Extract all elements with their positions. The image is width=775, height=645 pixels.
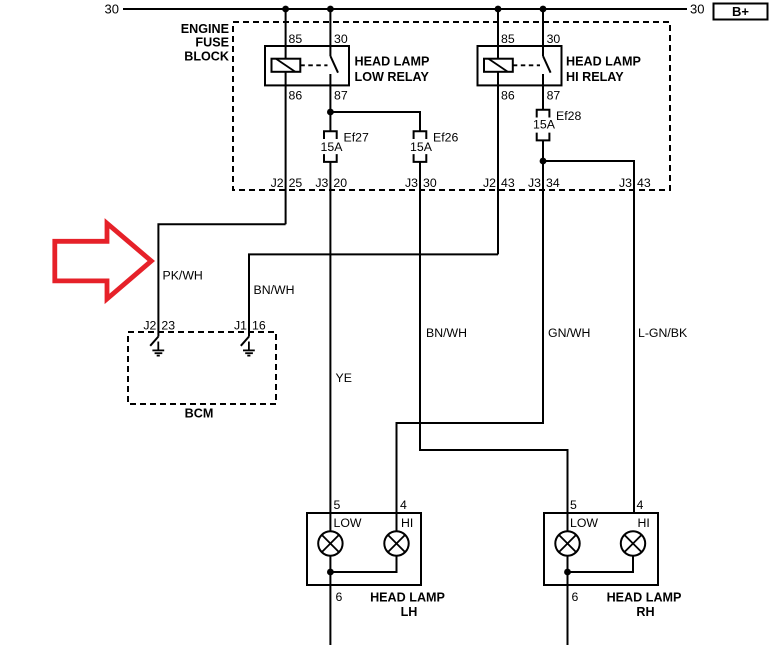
svg-text:HEAD LAMP: HEAD LAMP <box>566 55 641 69</box>
relay: HEAD LAMP LOW RELAY <box>265 32 429 103</box>
power source B+ <box>714 4 768 20</box>
connector J2 pin 25 <box>271 176 303 190</box>
connector J1 pin 16 <box>234 318 266 332</box>
svg-text:FUSE: FUSE <box>195 36 229 50</box>
svg-text:Ef28: Ef28 <box>556 109 581 123</box>
svg-text:L-GN/BK: L-GN/BK <box>638 326 688 340</box>
svg-text:BCM: BCM <box>185 407 214 421</box>
connector J3 pin 34 <box>528 176 560 190</box>
svg-text:30: 30 <box>334 32 348 46</box>
junction: bus / low relay pin 85 <box>282 6 289 13</box>
svg-text:4: 4 <box>400 498 407 512</box>
wire: YE from fuse Ef27 to head lamp LH pin 5 <box>329 162 331 531</box>
wire: bus to low relay coil (pin 85) <box>285 9 287 59</box>
junction: bus / hi relay pin 30 <box>540 6 547 13</box>
svg-text:15A: 15A <box>321 140 344 154</box>
fuse Ef27 15A <box>321 131 369 162</box>
connector J3 pin 30 <box>405 176 437 190</box>
svg-text:86: 86 <box>501 89 515 103</box>
svg-text:43: 43 <box>637 176 651 190</box>
svg-text:HEAD LAMP: HEAD LAMP <box>355 55 430 69</box>
lamp HI LH <box>384 516 413 556</box>
relay switch blade <box>330 56 338 73</box>
engine fuse block boundary <box>181 22 670 190</box>
svg-text:Ef27: Ef27 <box>344 131 369 145</box>
head lamp LH assembly <box>307 498 445 619</box>
wire: hi relay pin 87 to fuse Ef28 <box>542 74 544 110</box>
svg-text:86: 86 <box>289 89 303 103</box>
wire: fuse Ef28 to junction <box>542 140 544 161</box>
svg-text:J2: J2 <box>483 176 496 190</box>
fuse Ef26 15A <box>410 131 458 162</box>
ground: BCM J2 23 <box>150 337 164 356</box>
junction: Ef28 output branch <box>540 158 547 165</box>
junction: LH common <box>327 569 334 576</box>
junction: pin 87 / fuse branch <box>327 109 334 116</box>
BCM module boundary <box>128 332 276 421</box>
svg-text:BLOCK: BLOCK <box>184 49 229 63</box>
relay box <box>265 46 349 85</box>
svg-text:30: 30 <box>547 32 561 46</box>
wire: BN/WH from fuse Ef26 to head lamp RH pin 5 <box>420 162 568 531</box>
svg-text:HI: HI <box>638 516 650 530</box>
wire: head lamp RH pin 6 to ground (off page) <box>567 585 569 645</box>
svg-text:BN/WH: BN/WH <box>254 283 295 297</box>
svg-text:J2: J2 <box>271 176 284 190</box>
wire: bus to hi relay coil (pin 85) <box>497 9 499 59</box>
svg-text:85: 85 <box>501 32 515 46</box>
relay actuator dashed link <box>300 64 327 66</box>
relay actuator dashed link <box>513 64 540 66</box>
head lamp RH assembly <box>544 498 681 619</box>
svg-text:43: 43 <box>501 176 515 190</box>
wire: PK/WH from J2 25 to BCM J2 23 ground <box>158 224 285 336</box>
lamp LOW RH <box>555 516 598 556</box>
svg-text:LOW: LOW <box>570 516 598 530</box>
svg-text:J3: J3 <box>315 176 328 190</box>
svg-text:87: 87 <box>547 89 561 103</box>
svg-text:J3: J3 <box>619 176 632 190</box>
lamp LOW LH <box>318 516 362 556</box>
svg-text:25: 25 <box>289 176 303 190</box>
svg-text:16: 16 <box>252 318 266 332</box>
svg-text:ENGINE: ENGINE <box>181 22 229 36</box>
junction: bus / low relay pin 30 <box>327 6 334 13</box>
svg-text:LOW: LOW <box>334 516 362 530</box>
svg-text:BN/WH: BN/WH <box>426 326 467 340</box>
connector J2 pin 43 <box>483 176 515 190</box>
relay switch blade <box>543 56 551 73</box>
wire: hi relay pin 86 down (J2 43) <box>497 72 499 255</box>
svg-text:23: 23 <box>161 318 175 332</box>
wire: LH HI lamp to common <box>330 556 396 573</box>
wire: RH LOW lamp to pin 6 <box>567 556 569 586</box>
wire: head lamp LH pin 6 to ground (off page) <box>329 585 331 645</box>
wire: branch to fuse Ef26 <box>330 112 420 131</box>
svg-text:J2: J2 <box>143 318 156 332</box>
svg-text:RH: RH <box>636 605 654 619</box>
svg-text:J3: J3 <box>405 176 418 190</box>
svg-text:J3: J3 <box>528 176 541 190</box>
wire: RH HI lamp to common <box>568 556 634 573</box>
svg-text:HEAD LAMP: HEAD LAMP <box>370 591 445 605</box>
junction: RH common <box>564 569 571 576</box>
svg-text:HEAD LAMP: HEAD LAMP <box>607 591 682 605</box>
relay coil <box>484 59 513 72</box>
connector J3 pin 20 <box>315 176 347 190</box>
svg-text:6: 6 <box>572 590 579 604</box>
svg-text:6: 6 <box>336 590 343 604</box>
svg-text:YE: YE <box>336 371 352 385</box>
relay: HEAD LAMP HI RELAY <box>478 32 641 103</box>
svg-text:15A: 15A <box>533 118 556 132</box>
connector J3 pin 43 <box>619 176 651 190</box>
wire: branch right (J3 43) <box>543 161 634 513</box>
svg-text:30: 30 <box>105 2 119 17</box>
wire: GN/WH from Ef28 junction to head lamp LH pin 4 <box>397 161 544 531</box>
wire: LH LOW lamp to pin 6 <box>329 556 331 586</box>
relay coil <box>272 59 301 72</box>
fuse Ef28 15A <box>533 109 581 140</box>
wire: low relay pin 86 down (J2 25) <box>285 72 287 225</box>
svg-text:20: 20 <box>333 176 347 190</box>
svg-text:B+: B+ <box>732 4 749 19</box>
svg-text:GN/WH: GN/WH <box>548 326 590 340</box>
junction: bus / hi relay pin 85 <box>495 6 502 13</box>
relay box <box>478 46 562 85</box>
svg-text:HI RELAY: HI RELAY <box>566 70 624 84</box>
wire: BN/WH from J2 43 to BCM J1 16 ground <box>249 254 498 336</box>
svg-text:PK/WH: PK/WH <box>163 268 203 282</box>
svg-text:5: 5 <box>570 498 577 512</box>
lamp HI RH <box>621 516 650 556</box>
svg-text:34: 34 <box>546 176 560 190</box>
svg-text:5: 5 <box>334 498 341 512</box>
svg-text:87: 87 <box>334 89 348 103</box>
svg-text:LH: LH <box>401 605 418 619</box>
ground: BCM J1 16 <box>241 337 255 356</box>
svg-text:HI: HI <box>401 516 413 530</box>
wire: bus to hi relay switch (pin 30) <box>542 9 544 56</box>
svg-text:J1: J1 <box>234 318 247 332</box>
red callout arrow <box>55 223 152 299</box>
wire: bus to low relay switch (pin 30) <box>329 9 331 56</box>
svg-text:85: 85 <box>289 32 303 46</box>
svg-text:15A: 15A <box>410 140 433 154</box>
wire: low relay pin 87 down to junction <box>329 74 331 131</box>
svg-text:30: 30 <box>690 2 704 17</box>
svg-text:LOW RELAY: LOW RELAY <box>355 70 430 84</box>
wire: circuit 30 power bus <box>123 8 687 10</box>
svg-text:Ef26: Ef26 <box>433 131 458 145</box>
svg-text:4: 4 <box>637 498 644 512</box>
svg-text:30: 30 <box>423 176 437 190</box>
connector J2 pin 23 <box>143 318 175 332</box>
